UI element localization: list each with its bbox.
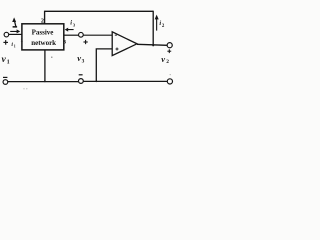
wire op-amp plus input stub [96,49,112,82]
label + (v1 top polarity) [3,42,8,43]
wire pin4 vertical [44,50,46,82]
svg-text:v: v [77,53,81,63]
svg-text:Passive: Passive [32,28,54,36]
label minus (v3 bottom polarity) [79,74,83,75]
terminal node v2- circle [167,79,172,84]
svg-text:1: 1 [7,60,10,66]
wire left port into pin 1 [9,33,22,35]
arrow current i1 [10,29,20,33]
svg-text:3: 3 [63,39,66,45]
op-amp U1 triangle [112,32,137,56]
junction plus-stub to rail [95,80,97,82]
svg-text:v: v [2,54,7,65]
label + (v2 polarity) [167,51,171,52]
terminal node v3+ circle [79,32,84,37]
arrow symbol i4 (top-left glyph) [12,17,17,27]
speck bottom left b [26,88,27,89]
label op-amp minus [115,34,117,37]
wire feedback down to output [152,11,154,46]
terminal node v1- circle [3,80,8,85]
svg-text:2: 2 [166,59,169,65]
passive network box N [22,24,64,50]
svg-text:1: 1 [14,44,16,49]
arrow current i3 (pointing left) [65,28,74,32]
wire pin2 vertical [44,11,46,25]
svg-text:1: 1 [20,38,23,44]
terminal node v1+ circle [4,32,9,37]
arrow current i2 (pointing up) [155,15,159,31]
wire node to op-amp minus input [83,34,112,36]
wire top feedback rail [45,10,154,12]
terminal node v3- circle on rail [79,79,84,84]
svg-text:v: v [161,54,165,64]
wire bottom rail right [83,80,167,82]
svg-text:network: network [31,39,56,47]
wire pin3 to node [64,34,79,36]
speck near pin4 [51,57,52,58]
wire op-amp output [137,44,167,45]
svg-text:3: 3 [82,59,85,65]
terminal node v2+ circle [167,43,172,48]
speck bottom left a [23,88,24,89]
junction feedback-output [152,44,154,46]
wire bottom rail left [8,81,79,83]
label + (v3 polarity) [83,41,87,42]
junction pin4-rail [44,81,46,83]
label op-amp plus [116,48,119,51]
label minus (v1 bottom polarity) [3,77,7,78]
speck above v2- terminal [170,74,171,75]
